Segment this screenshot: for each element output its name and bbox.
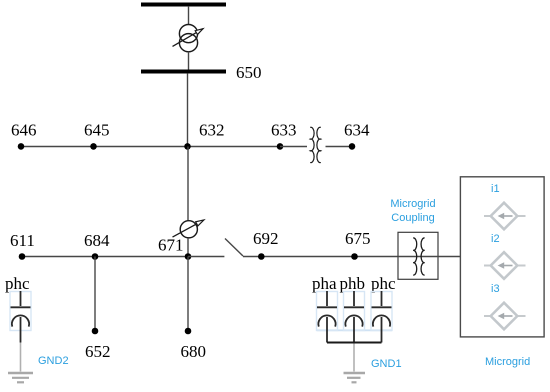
- wire switch to 692 to 675: [243, 256, 399, 258]
- node 692: [258, 253, 265, 260]
- svg-text:i2: i2: [491, 233, 500, 245]
- svg-text:671: 671: [158, 236, 184, 255]
- bottom bus joining capacitors: [327, 342, 382, 344]
- wire 646-645-632-633: [21, 146, 280, 148]
- svg-text:692: 692: [253, 229, 279, 248]
- highlight connector line under capacitors: [317, 329, 392, 331]
- svg-text:Microgrid: Microgrid: [485, 356, 530, 368]
- node 645: [90, 143, 97, 150]
- wire 633 to transformer: [280, 146, 307, 148]
- transformer 633-634 windings: [310, 127, 321, 162]
- node 675: [351, 253, 358, 260]
- wire coupling box to microgrid box: [438, 256, 461, 258]
- capacitor phc highlight box: [371, 292, 392, 331]
- svg-text:phc: phc: [5, 274, 30, 293]
- current source i1 (diamond with arrow): [484, 203, 526, 230]
- gray stem to GND2: [20, 343, 22, 372]
- svg-text:652: 652: [85, 342, 111, 361]
- node 632: [184, 143, 191, 150]
- capacitor pha highlight box: [317, 292, 338, 331]
- wire 684 to 652: [94, 257, 96, 332]
- coupling transformer windings: [398, 238, 438, 275]
- wire 611-684-671: [22, 256, 188, 258]
- capacitor phb highlight box: [344, 292, 365, 331]
- svg-text:675: 675: [345, 229, 371, 248]
- svg-text:645: 645: [84, 121, 110, 140]
- svg-text:Coupling: Coupling: [391, 212, 434, 224]
- wire 632 to regulator 671: [187, 147, 189, 221]
- current source i2: [484, 252, 526, 279]
- capacitor phc left highlight box: [10, 292, 31, 331]
- wire regulator to node 671: [187, 238, 189, 257]
- wire transformer to 634: [326, 146, 353, 148]
- svg-text:634: 634: [344, 121, 370, 140]
- node 633: [277, 143, 284, 150]
- node 634: [349, 143, 356, 150]
- capacitor phb: [344, 291, 364, 343]
- svg-text:phb: phb: [340, 274, 366, 293]
- wire 671 to 680: [187, 257, 189, 332]
- svg-text:633: 633: [271, 121, 297, 140]
- wire regulator to bus 650: [188, 52, 190, 70]
- busbar top: [141, 3, 226, 7]
- node 671: [185, 253, 192, 260]
- node 611: [19, 253, 26, 260]
- capacitor pha: [317, 291, 337, 343]
- svg-text:611: 611: [10, 231, 35, 250]
- switch blade 671-692: [225, 239, 243, 257]
- svg-text:i1: i1: [491, 183, 500, 195]
- svg-text:phc: phc: [371, 274, 396, 293]
- svg-text:GND2: GND2: [38, 355, 69, 367]
- svg-text:646: 646: [11, 121, 37, 140]
- wire 671 to switch: [188, 256, 224, 258]
- svg-text:684: 684: [84, 231, 110, 250]
- regulator above 671 (circle with arrow): [173, 220, 204, 238]
- regulating transformer (two circles with arrow): [173, 24, 204, 51]
- node 646: [18, 143, 25, 150]
- current source i3: [484, 303, 526, 330]
- capacitor phc left: [11, 291, 31, 343]
- wire 650 to node 632: [187, 74, 189, 146]
- microgrid coupling transformer box: [398, 232, 438, 279]
- svg-text:632: 632: [199, 121, 225, 140]
- svg-text:Microgrid: Microgrid: [390, 198, 435, 210]
- busbar 650: [141, 70, 226, 74]
- node 680: [185, 328, 192, 335]
- microgrid box: [460, 177, 544, 337]
- svg-text:GND1: GND1: [371, 358, 402, 370]
- svg-text:650: 650: [236, 63, 262, 82]
- gray stem to GND1: [353, 344, 355, 372]
- node 684: [92, 253, 99, 260]
- svg-text:pha: pha: [312, 274, 337, 293]
- node 652: [92, 328, 99, 335]
- svg-text:680: 680: [181, 342, 207, 361]
- ground GND1: [344, 373, 366, 382]
- svg-text:i3: i3: [491, 283, 500, 295]
- capacitor phc right: [372, 291, 392, 343]
- wire top bus to regulator: [188, 6, 190, 25]
- ground GND2: [8, 373, 33, 382]
